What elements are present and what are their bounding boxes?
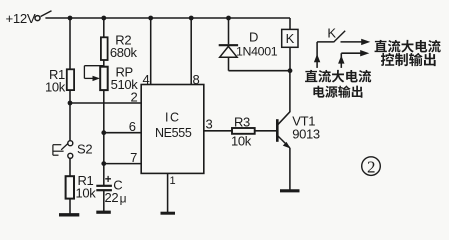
wire: rail to pin 4 xyxy=(150,18,152,85)
potentiometer RP 510k (rheostat) xyxy=(84,65,138,92)
wire: contact left terminal xyxy=(317,41,333,43)
wire: pin 7 to IC xyxy=(104,163,141,165)
node: junction R1/pin2 wire xyxy=(68,101,73,106)
svg-text:7: 7 xyxy=(130,150,137,165)
wire: R3 to base xyxy=(255,130,277,132)
wire: R1 to S2 xyxy=(69,90,71,140)
svg-text:6: 6 xyxy=(129,119,136,134)
svg-text:680k: 680k xyxy=(110,45,138,60)
svg-text:10k: 10k xyxy=(76,186,97,201)
wire: relay coil to node xyxy=(289,47,291,70)
resistor R1 (upper 10k) xyxy=(45,67,74,95)
label: DC high-current (line1 bottom) xyxy=(305,70,371,83)
wire: +12V top rail xyxy=(45,17,290,19)
arrow: up into left terminal xyxy=(314,54,320,62)
svg-text:K: K xyxy=(286,31,295,46)
wire: RP down through pins 6,7 to C xyxy=(103,90,105,186)
transistor Q1 VT1 9013 xyxy=(277,112,320,149)
relay coil K xyxy=(282,29,298,47)
wire: rail to R1 xyxy=(69,18,71,69)
contact blade xyxy=(334,31,346,43)
wire: rail to R2 xyxy=(103,18,105,37)
wire: pin 1 to ground xyxy=(167,173,169,212)
wire: pin 2 from junction to IC xyxy=(70,102,141,104)
wire: R2 to RP xyxy=(103,60,105,67)
power terminal +12V xyxy=(6,11,52,26)
resistor R1 (lower 10k) xyxy=(66,173,97,201)
node: junction pin 7 xyxy=(101,161,106,166)
figure number 2 (circled) xyxy=(362,157,381,177)
ground (pin 1) xyxy=(161,212,176,215)
svg-text:+: + xyxy=(105,174,112,186)
wire: diode to relay node xyxy=(229,70,291,72)
wire: pin 3 to R3 xyxy=(204,130,232,132)
node: rail junction at pin4 xyxy=(148,16,153,21)
svg-text:R3: R3 xyxy=(234,115,250,130)
svg-text:22: 22 xyxy=(105,190,119,205)
ground (under C) xyxy=(96,211,111,214)
node: rail junction at diode branch xyxy=(226,16,231,21)
svg-text:μ: μ xyxy=(120,192,127,206)
label: DC high-current (line1 right) xyxy=(375,40,441,53)
svg-text:D: D xyxy=(249,30,258,45)
arrow: up into right terminal xyxy=(338,55,344,63)
wire: S2 to lower R1 xyxy=(69,158,71,176)
node: rail junction at pin8 xyxy=(189,16,194,21)
wire: rail to diode cathode xyxy=(228,18,230,44)
svg-text:IC: IC xyxy=(165,111,181,125)
diode D 1N4001 xyxy=(219,30,278,59)
wire: rail corner down to relay coil xyxy=(289,18,291,29)
wire: controlled output with arrow xyxy=(341,41,363,43)
label: control output (line2 right) xyxy=(381,53,436,66)
wire: second output line xyxy=(341,52,361,54)
label: power output (line2 bottom) xyxy=(313,86,362,98)
node: relay coil / collector junction xyxy=(288,68,293,73)
wire: right terminal drop xyxy=(340,53,342,68)
node: rail junction at R2 branch xyxy=(101,16,106,21)
svg-text:S2: S2 xyxy=(77,142,92,157)
svg-text:NE555: NE555 xyxy=(155,126,192,140)
resistor R2 680k xyxy=(101,33,138,61)
wire: diode anode down xyxy=(228,57,230,70)
wire: emitter down to ground xyxy=(289,148,291,190)
wire: R1 to ground xyxy=(69,199,71,214)
wire: collector up to relay node xyxy=(289,71,291,113)
node: junction pin 6 xyxy=(101,130,106,135)
svg-text:10k: 10k xyxy=(231,133,252,148)
node: rail junction at R1 branch xyxy=(68,16,73,21)
wire: pin 6 to IC xyxy=(104,132,141,134)
ground (emitter) xyxy=(280,189,300,192)
switch S2 pushbutton xyxy=(53,141,92,159)
ground (left) xyxy=(59,213,79,216)
resistor R3 10k xyxy=(231,115,255,149)
wire: rail to pin 8 xyxy=(190,18,192,85)
svg-text:+12V: +12V xyxy=(6,11,36,26)
capacitor C 22u electrolytic xyxy=(96,174,126,205)
svg-text:1: 1 xyxy=(170,175,176,187)
svg-text:2: 2 xyxy=(367,157,376,176)
wire: C to ground xyxy=(103,190,105,211)
svg-text:2: 2 xyxy=(131,90,138,105)
svg-text:3: 3 xyxy=(206,117,213,132)
svg-text:9013: 9013 xyxy=(292,127,320,142)
svg-text:10k: 10k xyxy=(45,80,66,95)
wire: contact left terminal drop xyxy=(316,42,318,68)
svg-text:1N4001: 1N4001 xyxy=(236,45,278,59)
op-amp U1: IC NE555 body xyxy=(141,85,204,174)
svg-text:K: K xyxy=(327,26,336,41)
